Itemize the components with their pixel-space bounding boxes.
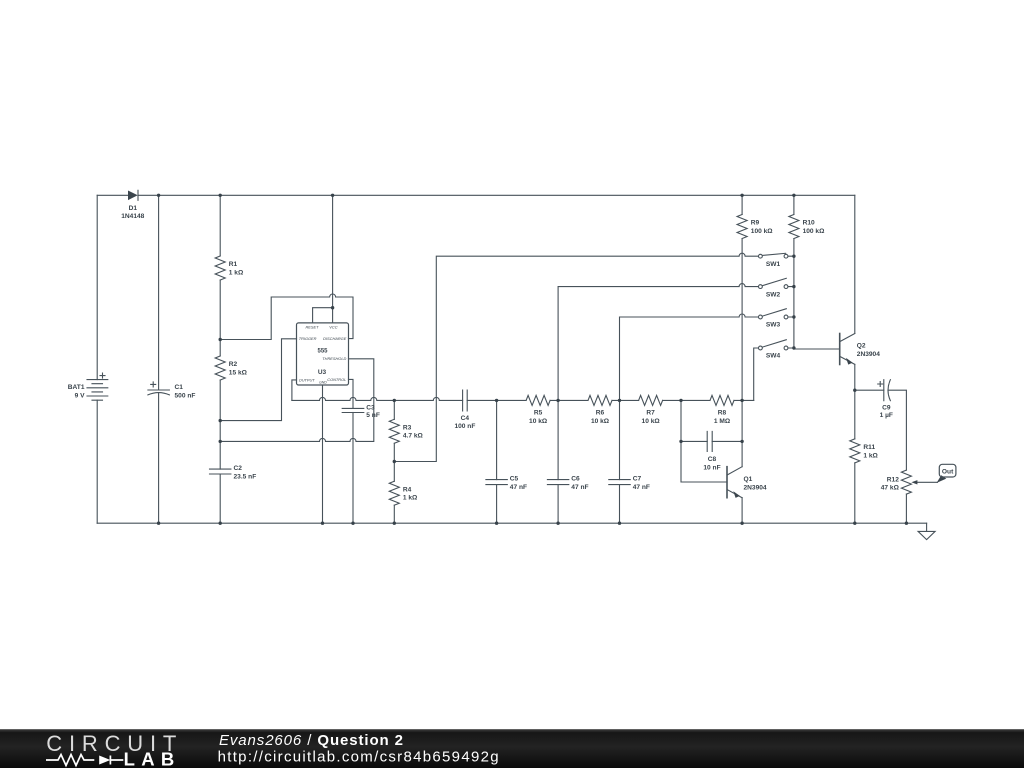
svg-text:1 kΩ: 1 kΩ bbox=[403, 495, 418, 502]
resistor R6 bbox=[588, 395, 612, 405]
svg-text:VCC: VCC bbox=[329, 324, 337, 329]
wire ground stub bbox=[926, 523, 928, 531]
svg-text:R7: R7 bbox=[646, 410, 655, 417]
wire bottom rail bbox=[97, 522, 926, 524]
svg-text:R12: R12 bbox=[887, 477, 899, 484]
wire R9 leads bbox=[741, 195, 743, 400]
wire R10 leads and switch bus down to Q2 base bbox=[793, 195, 795, 349]
svg-text:C6: C6 bbox=[571, 476, 580, 483]
logo resistor-diode squiggle bbox=[46, 755, 123, 766]
svg-text:100 kΩ: 100 kΩ bbox=[803, 228, 826, 235]
wire R1R2 junction to DISCHARGE with hop over VCC bbox=[220, 294, 353, 340]
wire THRESHOLD to R2/C2 node with hops bbox=[220, 359, 374, 442]
svg-text:R10: R10 bbox=[803, 220, 815, 227]
svg-text:5 nF: 5 nF bbox=[366, 412, 380, 419]
svg-text:TRIGGER: TRIGGER bbox=[299, 336, 317, 341]
wire Q1 collector bus bbox=[741, 400, 743, 466]
svg-text:1 kΩ: 1 kΩ bbox=[863, 452, 878, 459]
svg-text:R2: R2 bbox=[229, 361, 238, 368]
wire Q2 base bbox=[794, 348, 840, 350]
svg-text:10 kΩ: 10 kΩ bbox=[642, 418, 661, 425]
transistor Q2 bbox=[839, 334, 841, 365]
potentiometer R12 bbox=[901, 470, 911, 494]
wire left battery column bbox=[96, 195, 98, 523]
wire Q2 emitter to C9 bbox=[855, 389, 884, 391]
wire TRIGGER to R2/C2 node bbox=[220, 339, 296, 421]
svg-text:SW2: SW2 bbox=[766, 291, 781, 298]
wire R3 bottom node to SW1 bbox=[394, 253, 758, 461]
wire SW3 tap bbox=[620, 314, 759, 400]
wire R4 leads bbox=[393, 462, 395, 524]
wire C5 column bbox=[496, 400, 498, 523]
svg-text:Evans2606 / Question 2: Evans2606 / Question 2 bbox=[219, 732, 404, 749]
wire VCC from top rail bbox=[332, 195, 334, 323]
resistor R5 bbox=[526, 395, 550, 405]
svg-text:CONTROL: CONTROL bbox=[327, 377, 346, 382]
svg-text:SW4: SW4 bbox=[766, 353, 781, 360]
svg-text:C9: C9 bbox=[882, 404, 891, 411]
svg-text:47 kΩ: 47 kΩ bbox=[881, 485, 900, 492]
switch SW2 bbox=[762, 278, 786, 285]
svg-text:100 kΩ: 100 kΩ bbox=[751, 228, 774, 235]
svg-text:R1: R1 bbox=[229, 261, 238, 268]
wire Q1 emitter to rail bbox=[741, 498, 743, 524]
svg-text:Q2: Q2 bbox=[857, 343, 866, 350]
svg-text:http://circuitlab.com/csr84b65: http://circuitlab.com/csr84b659492g bbox=[218, 749, 500, 766]
capacitor C5 bbox=[486, 480, 507, 485]
wire R1 column leads bbox=[219, 195, 221, 339]
capacitor C8 bbox=[707, 431, 712, 451]
svg-text:LAB: LAB bbox=[124, 749, 181, 768]
diode D1 bbox=[137, 190, 139, 200]
wire C6 column bbox=[557, 400, 559, 523]
svg-text:9 V: 9 V bbox=[75, 392, 85, 399]
ground bbox=[918, 531, 935, 539]
svg-text:4.7 kΩ: 4.7 kΩ bbox=[403, 433, 424, 440]
footer banner bbox=[0, 729, 1024, 768]
svg-text:R3: R3 bbox=[403, 424, 412, 431]
svg-text:10 kΩ: 10 kΩ bbox=[529, 418, 548, 425]
resistor R3 bbox=[389, 419, 399, 443]
svg-text:C4: C4 bbox=[461, 415, 470, 422]
capacitor C7 bbox=[609, 480, 630, 485]
svg-text:1 kΩ: 1 kΩ bbox=[229, 269, 244, 276]
svg-text:47 nF: 47 nF bbox=[633, 484, 650, 491]
svg-text:2N3904: 2N3904 bbox=[744, 484, 767, 491]
svg-text:DISCHARGE: DISCHARGE bbox=[323, 336, 347, 341]
resistor R1 bbox=[215, 256, 225, 280]
wire C9 right to R12 column bbox=[888, 390, 906, 470]
svg-text:R6: R6 bbox=[596, 410, 605, 417]
transistor Q1 bbox=[726, 467, 728, 498]
wire C3 bottom to bottom rail bbox=[352, 413, 354, 524]
capacitor C1 bbox=[148, 390, 170, 395]
svg-text:Q1: Q1 bbox=[744, 476, 753, 483]
svg-text:R4: R4 bbox=[403, 486, 412, 493]
wire SW4 tap to row end bbox=[754, 348, 759, 400]
resistor R2 bbox=[215, 356, 225, 380]
svg-text:R5: R5 bbox=[534, 410, 543, 417]
wire R11 bottom to rail bbox=[854, 463, 856, 523]
svg-text:23.5 nF: 23.5 nF bbox=[234, 474, 257, 481]
wire R2 leads down to C2 bbox=[219, 340, 221, 524]
svg-text:C8: C8 bbox=[708, 456, 717, 463]
op-amp U3 555 timer box bbox=[297, 323, 349, 385]
wire R3 leads bbox=[393, 400, 395, 461]
svg-text:47 nF: 47 nF bbox=[571, 484, 588, 491]
svg-text:OUTPUT: OUTPUT bbox=[299, 377, 316, 382]
wire Q2 collector drop from rail bbox=[854, 195, 856, 333]
svg-text:SW1: SW1 bbox=[766, 261, 781, 268]
svg-text:BAT1: BAT1 bbox=[68, 384, 85, 391]
svg-text:C1: C1 bbox=[175, 384, 184, 391]
svg-text:RESET: RESET bbox=[306, 324, 320, 329]
svg-text:U3: U3 bbox=[318, 369, 327, 376]
wire output row with hops bbox=[292, 397, 754, 400]
svg-text:47 nF: 47 nF bbox=[510, 484, 527, 491]
wire top rail bbox=[97, 194, 855, 196]
wire SW right stubs bbox=[788, 256, 794, 348]
wire C7 column bbox=[619, 400, 621, 523]
svg-text:C7: C7 bbox=[633, 476, 642, 483]
wire R12 bottom to rail bbox=[905, 494, 907, 523]
svg-text:THRESHOLD: THRESHOLD bbox=[322, 356, 346, 361]
svg-text:500 nF: 500 nF bbox=[175, 392, 196, 399]
svg-text:10 nF: 10 nF bbox=[703, 464, 720, 471]
svg-text:C3: C3 bbox=[366, 405, 375, 412]
svg-text:100 nF: 100 nF bbox=[454, 423, 475, 430]
svg-text:10 kΩ: 10 kΩ bbox=[591, 418, 610, 425]
svg-text:Out: Out bbox=[942, 468, 954, 475]
svg-text:C2: C2 bbox=[234, 465, 243, 472]
switch SW1 bbox=[762, 253, 785, 255]
capacitor C4 bbox=[463, 390, 468, 411]
svg-text:1 MΩ: 1 MΩ bbox=[714, 418, 731, 425]
svg-text:SW3: SW3 bbox=[766, 322, 781, 329]
svg-text:1 µF: 1 µF bbox=[880, 412, 893, 419]
svg-text:2N3904: 2N3904 bbox=[857, 351, 880, 358]
capacitor C2 bbox=[210, 469, 231, 474]
resistor R4 bbox=[389, 481, 399, 505]
svg-text:GND: GND bbox=[319, 380, 327, 384]
svg-text:R9: R9 bbox=[751, 220, 760, 227]
switch SW4 bbox=[762, 340, 786, 347]
svg-text:C5: C5 bbox=[510, 476, 519, 483]
svg-text:555: 555 bbox=[317, 349, 328, 355]
wire CONTROL to C3 top bbox=[349, 379, 354, 408]
capacitor C6 bbox=[547, 480, 568, 485]
battery BAT1 bbox=[87, 380, 108, 401]
node Out flag bbox=[939, 464, 956, 477]
wire node R7R8 down to C8 and Q1 base bbox=[681, 400, 727, 482]
resistor R7 bbox=[639, 395, 663, 405]
wire OUTPUT pin bend bbox=[292, 380, 297, 401]
capacitor C9 bbox=[884, 380, 891, 401]
resistor R10 bbox=[789, 215, 799, 239]
wire SW2 tap bbox=[558, 284, 758, 401]
resistor R8 bbox=[710, 395, 734, 405]
svg-text:15 kΩ: 15 kΩ bbox=[229, 369, 248, 376]
wire RESET to VCC bracket bbox=[313, 308, 333, 323]
wire C8 right to Q1 collector bus bbox=[712, 440, 742, 442]
svg-text:R8: R8 bbox=[718, 410, 727, 417]
wire Q2 emitter node bbox=[854, 364, 856, 439]
switch SW3 bbox=[762, 309, 786, 316]
resistor R9 bbox=[737, 215, 747, 239]
wire 555 GND pin to bottom rail bbox=[322, 385, 324, 523]
wire C1 column bbox=[158, 195, 160, 523]
svg-text:D1: D1 bbox=[129, 205, 138, 212]
capacitor C3 bbox=[342, 408, 364, 412]
svg-text:R11: R11 bbox=[863, 444, 875, 451]
555 pin labels bbox=[299, 324, 347, 384]
resistor R11 bbox=[850, 439, 860, 463]
svg-text:1N4148: 1N4148 bbox=[121, 213, 144, 220]
